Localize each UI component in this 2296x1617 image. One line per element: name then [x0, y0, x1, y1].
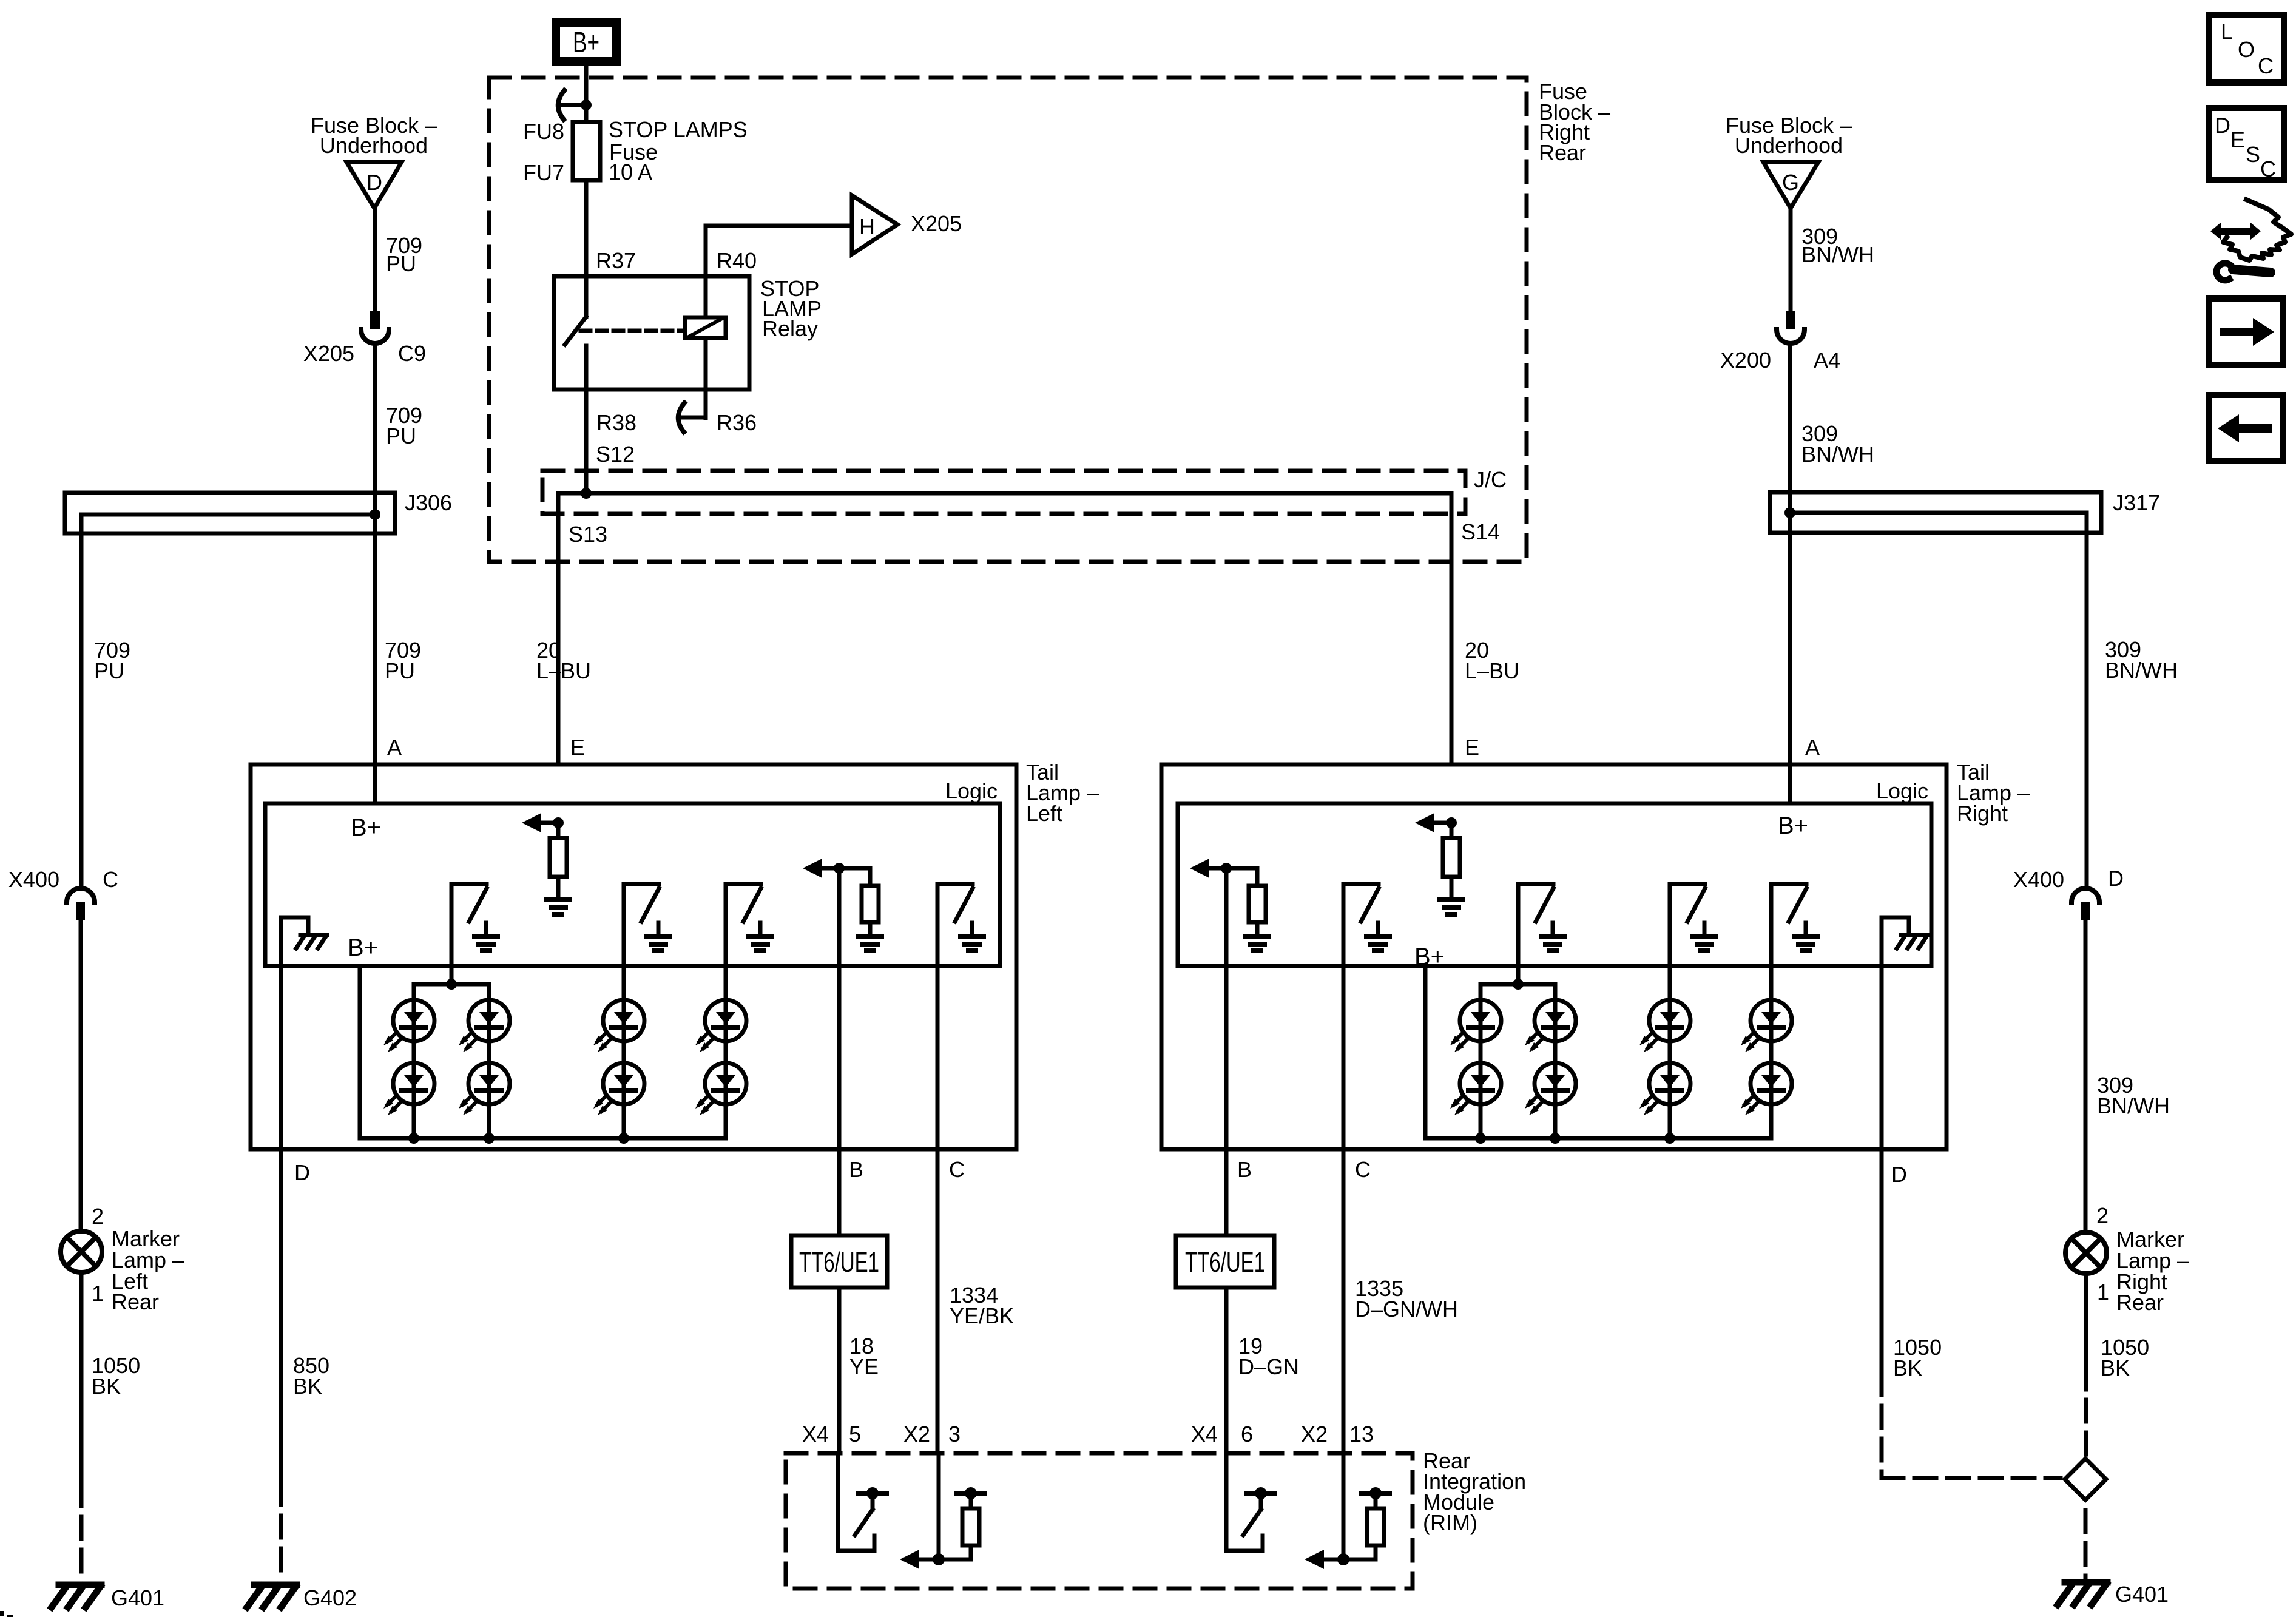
- svg-text:G: G: [1782, 170, 1799, 195]
- svg-text:D: D: [1891, 1162, 1907, 1187]
- relay coil: [685, 317, 726, 338]
- svg-text:BK: BK: [2101, 1355, 2130, 1380]
- tail lamp right outer box: [1161, 765, 1947, 1149]
- connector X200 A4: [1786, 311, 1795, 329]
- svg-text:B+: B+: [1778, 812, 1808, 839]
- svg-text:BN/WH: BN/WH: [1801, 242, 1874, 267]
- svg-text:TT6/UE1: TT6/UE1: [799, 1246, 879, 1278]
- svg-text:BK: BK: [92, 1374, 121, 1399]
- relay box STOP LAMP Relay: [554, 276, 749, 390]
- svg-text:Rear: Rear: [2116, 1290, 2164, 1315]
- svg-text:TT6/UE1: TT6/UE1: [1185, 1246, 1265, 1278]
- svg-text:D–GN: D–GN: [1238, 1354, 1299, 1379]
- svg-text:Right: Right: [1957, 801, 2008, 826]
- svg-text:Logic: Logic: [945, 778, 998, 803]
- svg-text:Underhood: Underhood: [1735, 133, 1843, 158]
- svg-text:B: B: [849, 1157, 863, 1182]
- svg-text:BN/WH: BN/WH: [2105, 658, 2178, 683]
- svg-text:Relay: Relay: [762, 316, 818, 341]
- svg-text:2: 2: [2096, 1203, 2109, 1228]
- svg-text:FU8: FU8: [523, 119, 564, 144]
- svg-text:Logic: Logic: [1876, 778, 1928, 803]
- connector hook at bus: [558, 90, 564, 120]
- svg-text:R36: R36: [717, 410, 757, 435]
- svg-text:X4: X4: [802, 1422, 829, 1447]
- E branch resistor and ground right: [1446, 817, 1457, 828]
- svg-text:BN/WH: BN/WH: [1801, 442, 1874, 467]
- svg-text:1: 1: [92, 1281, 104, 1306]
- LED array left: [360, 966, 726, 1138]
- relay switch contacts: [584, 276, 589, 317]
- node S12: [581, 488, 592, 499]
- wire R40 to X205 H: [704, 226, 708, 317]
- svg-text:G402: G402: [303, 1585, 357, 1610]
- E branch resistor and ground left: [553, 817, 564, 828]
- svg-text:L–BU: L–BU: [1465, 658, 1519, 683]
- svg-text:J317: J317: [2113, 490, 2160, 515]
- svg-text:S13: S13: [569, 522, 607, 547]
- svg-text:E: E: [570, 735, 585, 760]
- svg-text:Underhood: Underhood: [320, 133, 428, 158]
- relay actuation dashed link: [581, 329, 685, 333]
- svg-text:13: 13: [1349, 1422, 1374, 1447]
- logic box right: [1178, 803, 1931, 966]
- logic box left: [265, 803, 1000, 966]
- power symbol B+ box: [556, 22, 616, 61]
- switch 2 left: [622, 884, 626, 966]
- svg-text:R38: R38: [596, 410, 636, 435]
- svg-text:C: C: [2260, 157, 2276, 181]
- svg-text:B+: B+: [351, 814, 381, 841]
- svg-text:D–GN/WH: D–GN/WH: [1355, 1297, 1458, 1322]
- svg-text:S12: S12: [596, 442, 635, 467]
- rear integration module dashed box: [786, 1453, 1413, 1588]
- svg-text:X2: X2: [1301, 1422, 1328, 1447]
- wire 709 PU upper: [373, 208, 377, 311]
- svg-text:1: 1: [2097, 1280, 2109, 1305]
- RIM switch X4-6: [1224, 1453, 1229, 1551]
- svg-text:X200: X200: [1720, 348, 1771, 373]
- svg-text:D: D: [2215, 113, 2230, 138]
- svg-text:BK: BK: [1893, 1355, 1922, 1380]
- svg-text:B: B: [1237, 1157, 1252, 1182]
- tail lamp left outer box: [251, 765, 1016, 1149]
- switch 4 right: [1769, 884, 1774, 966]
- svg-text:PU: PU: [94, 658, 124, 683]
- wire 309 BN/WH to J317: [1788, 344, 1792, 803]
- svg-text:STOP LAMPS: STOP LAMPS: [609, 117, 748, 142]
- svg-text:O: O: [2238, 37, 2255, 62]
- wire pin C left: [936, 966, 940, 1453]
- wire 709 PU to J306: [373, 344, 377, 765]
- wire B+ to fuse: [584, 66, 589, 122]
- ground G401 right: [2065, 1579, 2107, 1586]
- wire pin B right: [1224, 868, 1229, 1235]
- ground G401 left: [59, 1582, 101, 1588]
- junction block J306: [65, 493, 395, 533]
- connector label TT6/UE1 left: [791, 1235, 887, 1288]
- ground G402: [254, 1582, 297, 1588]
- LED array right: [1425, 966, 1771, 1138]
- RIM resistor X2-3: [937, 1453, 941, 1559]
- svg-text:J/C: J/C: [1474, 467, 1507, 492]
- fuse FU8/FU7 STOP LAMPS 10A: [573, 122, 600, 180]
- diamond splice: [2065, 1459, 2106, 1500]
- svg-text:A4: A4: [1814, 348, 1840, 373]
- B branch resistor arrow right: [1221, 863, 1232, 874]
- wire pin B left: [837, 868, 842, 1235]
- svg-text:YE: YE: [849, 1354, 879, 1379]
- icon box arrow right: [2209, 299, 2283, 365]
- switch 1 right: [1342, 884, 1346, 966]
- svg-text:X400: X400: [2013, 867, 2064, 892]
- svg-text:X400: X400: [8, 867, 59, 892]
- wire R38 to S12: [584, 390, 589, 493]
- icon box LOC: [2209, 15, 2284, 83]
- triangle connector D: [346, 162, 402, 208]
- svg-text:6: 6: [1241, 1422, 1253, 1447]
- switch 4 left: [936, 884, 940, 966]
- svg-text:E: E: [2230, 127, 2245, 152]
- icon box arrow left: [2209, 395, 2283, 461]
- marker lamp right: [2065, 1232, 2107, 1274]
- fuse block right rear dashed box: [489, 78, 1527, 562]
- svg-text:D: D: [366, 170, 382, 195]
- svg-text:FU7: FU7: [523, 160, 564, 185]
- svg-text:A: A: [1805, 735, 1820, 760]
- svg-text:D: D: [2108, 866, 2124, 891]
- svg-text:B+: B+: [348, 934, 378, 961]
- svg-text:Rear: Rear: [1539, 140, 1586, 165]
- connector label TT6/UE1 right: [1176, 1235, 1274, 1288]
- corner mark: [0, 1611, 4, 1616]
- svg-text:C: C: [103, 867, 118, 892]
- svg-text:5: 5: [849, 1422, 861, 1447]
- chassis ground left module: [281, 917, 308, 966]
- dashed wire to G402: [279, 1516, 283, 1581]
- switch 3 right: [1668, 884, 1672, 966]
- wire 309 BN/WH to marker lamp right: [2084, 920, 2088, 1232]
- wire pin D left: [279, 966, 283, 1505]
- junction J/C dashed box: [542, 471, 1465, 514]
- svg-text:C: C: [2258, 53, 2274, 78]
- svg-text:PU: PU: [386, 424, 416, 448]
- svg-text:H: H: [859, 214, 875, 239]
- svg-text:Rear: Rear: [112, 1289, 159, 1314]
- svg-text:3: 3: [948, 1422, 961, 1447]
- switch 1 left: [450, 884, 454, 966]
- RIM switch X4-5: [836, 1453, 840, 1551]
- off-page arrow H X205: [852, 195, 897, 254]
- svg-text:S: S: [2246, 142, 2260, 167]
- wire fuse to relay R37: [584, 180, 589, 276]
- wire 1050 BK left: [79, 1272, 84, 1506]
- svg-text:YE/BK: YE/BK: [950, 1303, 1014, 1328]
- svg-text:E: E: [1465, 735, 1479, 760]
- svg-text:R37: R37: [596, 248, 636, 273]
- switch 3 left: [724, 884, 728, 966]
- svg-text:B+: B+: [573, 27, 599, 59]
- connector X205 C9: [370, 311, 380, 329]
- svg-text:L–BU: L–BU: [536, 658, 591, 683]
- svg-text:A: A: [387, 735, 402, 760]
- svg-text:B+: B+: [1414, 944, 1445, 970]
- svg-text:X4: X4: [1191, 1422, 1218, 1447]
- svg-text:C: C: [949, 1157, 965, 1182]
- svg-text:S14: S14: [1461, 519, 1500, 544]
- dashed wire to diamond: [2084, 1400, 2088, 1459]
- svg-text:X2: X2: [903, 1422, 930, 1447]
- svg-text:R40: R40: [717, 248, 757, 273]
- icon diagnostic hand with arrow and wrench: [2221, 228, 2250, 235]
- splice bus S13-S14: [558, 493, 1451, 765]
- svg-text:(RIM): (RIM): [1423, 1510, 1477, 1535]
- icon box DESC: [2209, 108, 2284, 180]
- svg-text:Left: Left: [1026, 801, 1062, 826]
- svg-text:PU: PU: [386, 251, 416, 276]
- svg-text:BN/WH: BN/WH: [2097, 1093, 2170, 1118]
- svg-text:PU: PU: [385, 658, 415, 683]
- svg-text:J306: J306: [405, 490, 452, 515]
- switch 2 right: [1516, 884, 1521, 966]
- svg-text:X205: X205: [303, 341, 354, 366]
- wire 1050 BK right: [2084, 1274, 2088, 1389]
- connector X400 D: [2071, 888, 2099, 902]
- svg-text:X205: X205: [911, 211, 962, 236]
- svg-text:2: 2: [92, 1204, 104, 1229]
- svg-text:G401: G401: [111, 1585, 164, 1610]
- B branch resistor arrow left: [834, 863, 845, 874]
- triangle connector G: [1763, 162, 1818, 208]
- chassis ground right module: [1882, 917, 1909, 966]
- wire 709 PU to marker lamp left: [79, 920, 83, 1231]
- wire R36 with hook: [704, 338, 708, 418]
- junction block J317: [1770, 492, 2101, 533]
- svg-text:D: D: [294, 1160, 310, 1185]
- svg-text:10 A: 10 A: [609, 160, 652, 184]
- wire 709 PU left branch: [79, 515, 84, 888]
- connector X400 C: [67, 888, 95, 902]
- wire 309 BN/WH right branch: [2085, 513, 2089, 888]
- dashed wire to G401 left: [79, 1517, 84, 1581]
- wire 309 BN/WH upper: [1789, 208, 1793, 311]
- svg-text:C: C: [1355, 1157, 1371, 1182]
- wire pin C right: [1342, 966, 1346, 1453]
- marker lamp left: [61, 1231, 102, 1272]
- svg-text:C9: C9: [398, 341, 426, 366]
- wire pin D right: [1880, 966, 1884, 1395]
- dashed wire pin D to diamond: [1880, 1406, 1884, 1478]
- RIM resistor X2-13: [1342, 1453, 1346, 1559]
- svg-text:G401: G401: [2115, 1582, 2169, 1607]
- dashed wire diamond to G401 right: [2084, 1510, 2088, 1579]
- svg-text:L: L: [2221, 19, 2233, 44]
- svg-text:BK: BK: [293, 1374, 322, 1399]
